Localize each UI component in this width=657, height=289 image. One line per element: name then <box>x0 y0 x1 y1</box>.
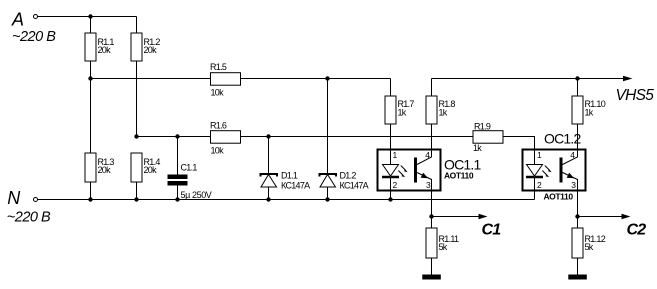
wire R1.3 bottom lead <box>90 182 92 200</box>
svg-text:1k: 1k <box>585 108 594 118</box>
wire C1 line <box>432 216 480 218</box>
arrow C1 <box>479 214 488 219</box>
wire OC1.1 pin3 down to C1 <box>431 191 433 217</box>
svg-text:~220 В: ~220 В <box>12 29 56 45</box>
wire R1.10 bottom lead to OC1.2 pin4 <box>577 124 579 150</box>
wire R1.6 line <box>137 136 474 138</box>
ground under R1.11 <box>422 275 441 280</box>
svg-text:2: 2 <box>393 180 398 190</box>
svg-text:VHS5: VHS5 <box>616 87 655 104</box>
wire R1.7 top lead <box>390 79 392 97</box>
svg-text:1k: 1k <box>439 108 448 118</box>
wire OC1.2 pin3 down to C2 <box>577 191 579 217</box>
resistor R1.2 <box>131 33 142 61</box>
wire R1.8 top lead <box>431 79 433 97</box>
svg-text:A: A <box>11 10 24 30</box>
wire D1.2 bottom lead <box>327 187 329 200</box>
junction dot C1.1/N <box>175 197 179 201</box>
wire C1.1 top lead <box>177 137 179 175</box>
junction dot R1.4/N <box>134 197 138 201</box>
svg-text:АОТ110: АОТ110 <box>544 191 574 201</box>
resistor R1.5 <box>211 73 241 86</box>
junction dot R1.10/VHS5 <box>575 76 579 80</box>
capacitor C1.1 <box>168 175 188 180</box>
wire OC1.1 pin2 to N <box>390 191 392 200</box>
svg-text:OC1.2: OC1.2 <box>544 131 581 147</box>
junction dot D1.1/N <box>266 197 270 201</box>
wire R1.9 to OC1.2 pin1 <box>503 137 535 150</box>
svg-text:3: 3 <box>571 180 576 190</box>
svg-text:1: 1 <box>537 150 542 160</box>
transistor OC1.1 phototransistor <box>414 158 417 183</box>
arrow VHS5 <box>623 76 633 82</box>
svg-text:D1.2: D1.2 <box>340 171 357 181</box>
ground under R1.12 <box>568 275 587 280</box>
svg-text:5k: 5k <box>585 242 594 252</box>
resistor R1.7 <box>385 96 396 124</box>
wire A top line <box>38 16 137 18</box>
node A terminal <box>34 15 38 19</box>
svg-text:5µ 250V: 5µ 250V <box>181 190 212 200</box>
wire R1.7 bottom lead to OC1.1 pin1 crossing R1.6 line <box>390 124 392 150</box>
wire R1.11 bottom lead <box>431 258 433 275</box>
svg-text:D1.1: D1.1 <box>281 171 298 181</box>
wire C2 line <box>578 216 623 218</box>
svg-text:N: N <box>7 188 21 208</box>
resistor R1.9 <box>473 131 503 144</box>
junction dot D1.1 top <box>266 134 270 138</box>
svg-text:10k: 10k <box>211 146 225 156</box>
wire R1.8 bottom lead to OC1.1 pin4 crossing R1.6 line <box>431 124 433 150</box>
svg-text:2: 2 <box>537 180 542 190</box>
junction dot R1.3/N <box>88 197 92 201</box>
wire R1.2 bottom lead crossing R1.5 line <box>136 61 138 137</box>
op-amp box OC1.1 optocoupler <box>378 150 441 191</box>
junction dot A/R1.1 <box>88 14 92 18</box>
resistor R1.1 <box>85 33 96 61</box>
arrow C2 <box>622 214 631 219</box>
svg-text:R1.6: R1.6 <box>210 121 227 131</box>
wire R1.3 top lead <box>90 79 92 154</box>
wire R1.11 top lead <box>431 217 433 229</box>
light arrows OC1.1 <box>401 166 406 171</box>
svg-text:R1.9: R1.9 <box>474 122 491 132</box>
svg-text:КС147А: КС147А <box>340 181 369 191</box>
LED OC1.1 <box>390 150 392 165</box>
wire D1.2 top lead crossing R1.6 line <box>327 79 329 174</box>
wire OC1.2 pin2 to N <box>534 191 536 200</box>
svg-text:5k: 5k <box>439 242 448 252</box>
svg-text:R1.5: R1.5 <box>210 62 227 72</box>
wire VHS5 line <box>432 78 629 80</box>
svg-text:3: 3 <box>426 180 431 190</box>
node N terminal <box>34 198 38 202</box>
resistor R1.6 <box>211 131 241 144</box>
svg-text:КС147А: КС147А <box>281 181 310 191</box>
junction dot D1.2 top <box>325 76 329 80</box>
diode D1.1 zener <box>261 174 278 177</box>
light arrows OC1.2 <box>545 166 550 171</box>
junction dot OC1.1 pin2/N <box>388 197 392 201</box>
svg-text:1k: 1k <box>398 108 407 118</box>
wire R1.10 top lead <box>577 79 579 97</box>
wire R1.12 top lead <box>577 217 579 229</box>
wire R1.1 top lead <box>90 17 92 34</box>
resistor R1.8 <box>426 96 437 124</box>
wire R1.2 top lead <box>136 17 138 34</box>
transistor OC1.2 phototransistor <box>560 158 563 183</box>
svg-text:1k: 1k <box>473 143 482 153</box>
diode D1.2 zener <box>320 174 337 177</box>
junction dot R1.1/R1.5 <box>88 76 92 80</box>
wire D1.1 top lead <box>268 137 270 174</box>
wire D1.1 bottom lead <box>268 187 270 200</box>
svg-text:~220 В: ~220 В <box>7 210 51 226</box>
svg-text:20k: 20k <box>144 45 158 55</box>
resistor R1.12 <box>572 228 583 258</box>
wire N line <box>38 199 535 201</box>
wire R1.4 bottom lead <box>136 182 138 200</box>
op-amp box OC1.2 optocoupler <box>523 150 586 191</box>
svg-text:10k: 10k <box>211 88 225 98</box>
resistor R1.3 <box>85 153 96 182</box>
svg-text:1: 1 <box>393 150 398 160</box>
svg-text:20k: 20k <box>144 165 158 175</box>
svg-text:C2: C2 <box>627 222 647 239</box>
resistor R1.10 <box>572 96 583 124</box>
wire R1.5 line <box>91 78 391 80</box>
wire R1.1 bottom lead <box>90 61 92 79</box>
LED OC1.2 <box>534 150 536 165</box>
junction dot C1.1 top <box>175 134 179 138</box>
svg-text:C1.1: C1.1 <box>181 163 198 173</box>
svg-text:4: 4 <box>570 150 575 160</box>
svg-text:20k: 20k <box>98 165 112 175</box>
svg-text:АОТ110: АОТ110 <box>444 170 474 180</box>
svg-text:4: 4 <box>425 150 430 160</box>
svg-text:C1: C1 <box>482 222 502 239</box>
wire C1.1 bottom lead <box>177 186 179 200</box>
resistor R1.4 <box>131 153 142 182</box>
resistor R1.11 <box>426 228 437 258</box>
junction dot C1/R1.11 <box>429 214 433 218</box>
junction dot C2/R1.12 <box>575 214 579 218</box>
svg-text:20k: 20k <box>98 45 112 55</box>
junction dot D1.2/N <box>325 197 329 201</box>
wire R1.12 bottom lead <box>577 258 579 275</box>
junction dot R1.2/R1.6 <box>134 134 138 138</box>
